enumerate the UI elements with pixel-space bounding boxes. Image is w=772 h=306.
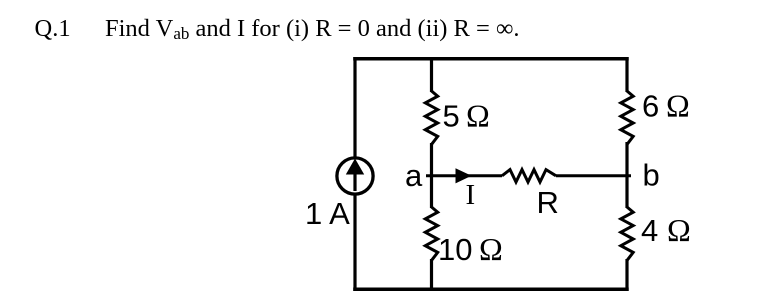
svg-text:Find Vab and I for (i) R = 0 a: Find Vab and I for (i) R = 0 and (ii) R … (105, 15, 520, 43)
resistor 4Ω (621, 207, 633, 260)
wire middle vertical center (430, 143, 433, 208)
current source 1A (337, 158, 373, 194)
resistor R (502, 170, 556, 182)
svg-text:4: 4 (641, 213, 658, 248)
wire bottom (353, 288, 629, 292)
resistor 10Ω (425, 207, 437, 260)
label I (466, 179, 476, 211)
svg-text:Q.1: Q.1 (35, 15, 71, 42)
node a (405, 158, 423, 193)
svg-text:6: 6 (642, 89, 659, 124)
svg-text:a: a (405, 158, 423, 193)
svg-text:I: I (466, 179, 476, 211)
svg-text:5: 5 (443, 99, 460, 134)
resistor 5Ω (425, 91, 437, 144)
svg-text:Ω: Ω (667, 212, 691, 248)
wire right vertical center (625, 142, 628, 208)
svg-text:1 A: 1 A (305, 196, 350, 231)
wire middle horizontal a-b (426, 174, 631, 177)
label 4Ω (641, 212, 691, 248)
wire right vertical upper (625, 57, 628, 92)
wire middle vertical lower (430, 259, 433, 291)
node b (643, 158, 660, 193)
svg-text:10: 10 (438, 232, 472, 267)
label 6Ω (642, 88, 690, 124)
wire left lower (current source to bottom) (353, 195, 356, 292)
title question text (35, 15, 520, 43)
svg-text:R: R (537, 185, 559, 220)
svg-text:Ω: Ω (666, 88, 690, 124)
label R (537, 185, 559, 220)
label 10Ω (438, 231, 503, 267)
wire right vertical lower (625, 259, 628, 291)
label 1 A (305, 196, 350, 231)
svg-text:Ω: Ω (479, 231, 503, 267)
svg-text:Ω: Ω (466, 98, 490, 134)
wire middle vertical upper (430, 57, 433, 92)
svg-text:b: b (643, 158, 660, 193)
wire left upper (top to current source) (353, 57, 356, 158)
label 5Ω (443, 98, 490, 134)
wire top (353, 57, 629, 61)
current arrow I (456, 168, 472, 183)
resistor 6Ω (621, 91, 633, 144)
